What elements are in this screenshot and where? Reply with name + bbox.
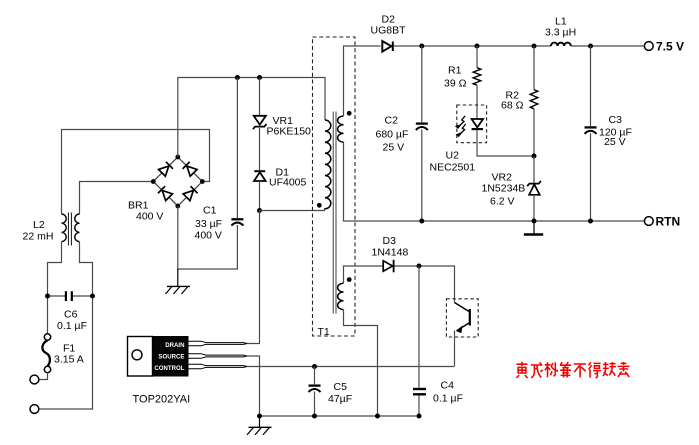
wire: VR1 upper lead [259, 78, 261, 116]
diode D1 [254, 171, 266, 181]
pin CONTROL lead [188, 364, 247, 369]
wire: C2 branch lower [421, 129, 423, 221]
wire: C1 branch lower [236, 225, 238, 269]
capacitor C1 [231, 219, 243, 225]
node: RTN rail at VR2 [532, 219, 537, 224]
terminal: RTN [644, 217, 653, 226]
node: C6 right junction [90, 294, 95, 299]
wire: bias winding top lead to D3 [344, 266, 383, 283]
svg-text:R1: R1 [448, 65, 462, 77]
svg-text:1N4148: 1N4148 [372, 247, 409, 259]
wire: control pin line to opto emitter [247, 366, 455, 368]
svg-text:0.1 µF: 0.1 µF [433, 393, 463, 405]
node: C6 left junction [45, 294, 50, 299]
svg-text:25 V: 25 V [604, 136, 626, 148]
node: bridge right vertex [200, 179, 205, 184]
svg-text:1N5234B: 1N5234B [482, 183, 526, 195]
svg-text:25 V: 25 V [383, 142, 405, 154]
BR1 diode bottom-right [183, 186, 198, 201]
TOP202 package body U1 [153, 337, 189, 377]
svg-text:UF4005: UF4005 [269, 177, 307, 189]
capacitor C2 [416, 124, 428, 130]
resistor R1 [473, 68, 481, 86]
svg-text:L2: L2 [33, 219, 45, 231]
wire: R1 upper lead [476, 46, 478, 68]
svg-text:C4: C4 [441, 380, 455, 392]
node: DC+ rail at VR1 [257, 75, 262, 80]
node: ground rail at bias return [375, 414, 380, 419]
node: ground rail at C5 [312, 414, 317, 419]
ground: secondary ground below VR2 [524, 221, 543, 235]
node: D1 drain junction [257, 208, 262, 213]
ground: primary ground under source [247, 416, 272, 435]
wire: C4 branch upper [418, 266, 420, 388]
svg-text:33 µF: 33 µF [195, 218, 222, 230]
wire: L1 to 7.5V terminal [571, 45, 645, 47]
svg-text:6.2 V: 6.2 V [490, 196, 515, 208]
LED emission arrows [456, 116, 466, 137]
wire: VR2 lower lead [533, 195, 535, 221]
capacitor C5 [309, 386, 321, 392]
T1 secondary winding [338, 116, 344, 142]
capacitor C4 [413, 389, 426, 394]
capacitor C6 [48, 291, 93, 301]
pin SOURCE lead [188, 354, 247, 359]
transformer T1 dashed box [313, 37, 356, 336]
LED of U2 [472, 119, 483, 129]
node: bridge bottom vertex [175, 204, 180, 209]
svg-text:22 mH: 22 mH [23, 231, 54, 243]
zener VR1 [253, 116, 267, 129]
node: bias phase dot [347, 277, 352, 282]
wire: fuse bottom to upper input terminal [39, 373, 48, 380]
inductor L1 [551, 43, 571, 46]
wire: L2 left winding down to C6 left node and fuse [48, 242, 62, 334]
wire: D1 bottom to drain junction [259, 181, 261, 211]
wire: opto emitter down to control line [454, 331, 456, 367]
svg-text:400 V: 400 V [136, 211, 163, 223]
svg-text:3.15 A: 3.15 A [54, 354, 84, 366]
svg-text:P6KE150: P6KE150 [267, 126, 312, 138]
bridge rectifier BR1 diamond edges [153, 157, 202, 206]
wire: source pin to ground rail [247, 356, 260, 416]
node: top rail at L1/C3 [588, 44, 593, 49]
svg-text:680 µF: 680 µF [376, 129, 409, 141]
svg-text:0.1 µF: 0.1 µF [57, 320, 87, 332]
node: ground rail at C4 [417, 414, 422, 419]
resistor R2 [530, 90, 538, 109]
svg-text:SOURCE: SOURCE [158, 354, 184, 361]
diode D3 [383, 260, 393, 273]
wire: C5 upper lead [314, 367, 316, 385]
terminal: AC input upper [30, 375, 39, 384]
optocoupler U2 transistor dashed box [446, 299, 478, 337]
wire: R1 to LED lead [476, 85, 478, 119]
node: RTN rail at C3 [588, 219, 593, 224]
node: top rail at C2 [419, 44, 424, 49]
node: bridge top vertex [175, 155, 180, 160]
svg-text:3.3 µH: 3.3 µH [545, 27, 576, 39]
node: top rail at R2 [532, 44, 537, 49]
wire: bridge top vertex up to DC+ rail across to transformer primary top [178, 78, 325, 158]
svg-text:NEC2501: NEC2501 [430, 162, 476, 174]
wire: bridge bottom vertex down to primary ground node and rail to C1 [178, 206, 238, 269]
L2 core lines [68, 213, 71, 246]
wire: C3 branch upper [590, 46, 592, 126]
terminal: AC input lower [30, 405, 39, 414]
node: RTN rail at C2 [419, 219, 424, 224]
T1 primary winding [325, 120, 331, 209]
wire: R2 lower lead [533, 109, 535, 156]
svg-text:T1: T1 [318, 326, 330, 338]
wire: bias winding bottom lead to ground rail [344, 310, 378, 416]
T1 core lines [333, 112, 336, 314]
wire: VR1 to D1 lead [259, 128, 261, 170]
BR1 diode bottom-left [158, 186, 173, 201]
node: bias supply at C4 [417, 264, 422, 269]
wire: C1 branch upper [236, 78, 238, 219]
svg-text:47µF: 47µF [328, 393, 352, 405]
diode D2 [382, 41, 393, 52]
svg-text:DRAIN: DRAIN [165, 342, 184, 349]
svg-text:TOP202YAI: TOP202YAI [133, 394, 191, 406]
wire: C2 branch upper [421, 46, 423, 122]
svg-text:68 Ω: 68 Ω [501, 100, 524, 112]
node: ground rail at source [257, 414, 262, 419]
svg-text:C3: C3 [609, 114, 623, 126]
zener VR2 [527, 181, 541, 195]
wire: output top rail D2 to L1 [394, 45, 551, 47]
svg-text:7.5 V: 7.5 V [656, 40, 684, 54]
wire: LED cathode down and across to R2/VR2 node [477, 130, 534, 157]
svg-text:C2: C2 [385, 115, 399, 127]
wire: C3 branch lower [590, 133, 592, 221]
wire: R2 upper lead [533, 46, 535, 90]
svg-text:D3: D3 [383, 235, 397, 247]
node: top rail at R1 [475, 44, 480, 49]
svg-text:C1: C1 [203, 205, 217, 217]
wire: drain junction to transformer primary bottom [260, 208, 325, 211]
ground: primary ground under bridge [166, 269, 191, 294]
svg-text:CONTROL: CONTROL [154, 365, 184, 372]
node: R2/VR2/LED junction [532, 154, 537, 159]
watermark red text [517, 362, 630, 378]
inductor L2 right winding [75, 214, 80, 242]
wire: drain vertical down to TOP202 drain pin [247, 211, 260, 344]
T1 bias winding [338, 283, 344, 309]
node: DC+ rail at C1 [235, 75, 240, 80]
wire: C5 lower lead [314, 391, 316, 416]
svg-text:UG8BT: UG8BT [371, 25, 407, 37]
node: secondary phase dot [347, 111, 352, 116]
capacitor C3 [585, 127, 597, 133]
svg-text:C6: C6 [64, 309, 78, 321]
pin DRAIN lead [188, 341, 247, 346]
BR1 diode top-left [158, 162, 173, 177]
wire: C4 branch lower [418, 396, 420, 417]
wire: L2 right winding down, right side to bottom input terminal [39, 242, 93, 409]
wire: bridge left vertex to L2 right winding top [80, 182, 153, 215]
opto transistor [455, 303, 470, 333]
svg-text:RTN: RTN [656, 215, 681, 229]
wire: D3 cathode to opto collector corner [395, 266, 455, 303]
svg-text:C5: C5 [334, 381, 348, 393]
wire: secondary bottom lead and RTN rail [344, 142, 645, 221]
svg-text:39 Ω: 39 Ω [444, 78, 467, 90]
wire: VR2 upper lead [533, 156, 535, 183]
wire: top-left rail from L2 left winding up and across to bridge right vertex [62, 130, 210, 215]
svg-text:U2: U2 [446, 150, 460, 162]
node: bridge left vertex [151, 179, 156, 184]
inductor L2 left winding [62, 214, 67, 242]
TOP202 package tab [128, 337, 153, 377]
wire: primary ground rail [260, 415, 420, 417]
wire: secondary top lead to D2 anode [344, 46, 381, 116]
node: control line at C5 [312, 364, 317, 369]
BR1 diode top-right [183, 162, 198, 177]
node: primary phase dot [317, 203, 322, 208]
fuse F1 [42, 334, 50, 373]
svg-text:400 V: 400 V [195, 230, 222, 242]
optocoupler U2 LED dashed box [457, 105, 487, 143]
terminal: 7.5 V output [644, 42, 653, 51]
